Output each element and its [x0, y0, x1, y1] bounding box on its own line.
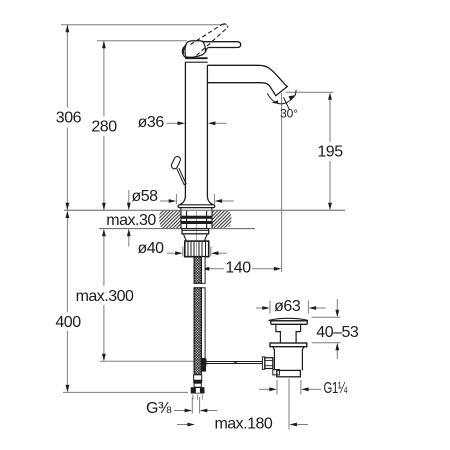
extension line hose-end (400 bottom): [63, 391, 188, 393]
svg-text:max.300: max.300: [76, 288, 134, 305]
hose end nut G3/8: [191, 387, 205, 393]
lever base blob: [182, 41, 205, 58]
dim 140: [207, 268, 225, 270]
drain cup: [273, 347, 304, 371]
svg-text:140: 140: [225, 260, 251, 277]
pipe continuation ticks: [193, 395, 202, 400]
dim 400 line: [66, 218, 68, 385]
counter hatch right: [212, 211, 231, 228]
dim max.180: [177, 424, 189, 426]
through-counter shank: [181, 211, 212, 228]
svg-text:195: 195: [317, 144, 343, 161]
counter top line: [64, 209, 345, 211]
dim 280 line: [103, 41, 105, 211]
extension line top (max height, dashed-lever tip level): [61, 24, 227, 26]
pull rod: [177, 168, 186, 185]
svg-text:ø36: ø36: [138, 114, 165, 131]
svg-text:30°: 30°: [280, 106, 298, 120]
svg-text:G1¼: G1¼: [324, 380, 348, 397]
supply hose upper segment: [194, 257, 201, 284]
counter bottom line: [99, 228, 255, 230]
drain neck and tube: [276, 324, 301, 343]
spout: [207, 65, 287, 95]
cap ring lines: [185, 57, 207, 59]
shank center line: [195, 211, 197, 257]
drain flange: [271, 321, 308, 325]
base plate: [178, 205, 215, 208]
dim 40-53: [312, 316, 341, 318]
shank gasket bands: [181, 216, 212, 219]
svg-text:max.180: max.180: [214, 415, 272, 432]
drain center vline: [288, 379, 290, 430]
pull-rod tube upper segment: [202, 257, 206, 284]
pull-rod tube lower segment: [202, 288, 206, 359]
dim G1 1/4: [276, 380, 278, 395]
drain bottom rim: [277, 370, 301, 376]
pop-up plug cap: [269, 318, 308, 320]
extension line rod level (max.300 bottom): [100, 360, 194, 362]
svg-text:280: 280: [91, 118, 117, 135]
svg-text:ø58: ø58: [131, 188, 158, 205]
svg-text:max.30: max.30: [106, 212, 156, 229]
svg-text:306: 306: [56, 110, 82, 127]
dim max.30 arrows: [128, 190, 130, 204]
30 degree annotation: [267, 90, 296, 104]
svg-text:400: 400: [55, 314, 81, 331]
horizontal pop-up rod: [207, 362, 263, 364]
under-counter flange: [182, 229, 209, 234]
base plinth: [180, 208, 182, 211]
dim G3/8: [191, 397, 193, 414]
taper to nut: [183, 234, 207, 241]
counter hatch left: [159, 211, 181, 228]
lever handle bar: [203, 42, 241, 52]
supply hose lower segment: [194, 288, 201, 375]
rod coupling blocks: [201, 359, 207, 366]
dashed raised lever: [191, 24, 228, 56]
svg-text:G⅜: G⅜: [146, 400, 172, 417]
dim 195 line: [329, 100, 331, 204]
svg-text:ø40: ø40: [137, 240, 164, 257]
dim 306 line: [66, 25, 68, 211]
mounting nut: [185, 241, 209, 257]
svg-text:40–53: 40–53: [316, 324, 359, 341]
extension line spout-outlet level: [286, 91, 334, 93]
rod clevis at drain: [262, 357, 264, 369]
faucet body column: [179, 62, 213, 205]
spout outlet reference vline: [281, 93, 283, 272]
dim max.300 line: [103, 236, 105, 354]
hose end fitting: [194, 375, 202, 380]
svg-text:ø63: ø63: [274, 298, 301, 315]
pull rod knob: [170, 155, 181, 169]
drain collar: [270, 343, 307, 347]
extension line lever-top level: [97, 40, 187, 42]
